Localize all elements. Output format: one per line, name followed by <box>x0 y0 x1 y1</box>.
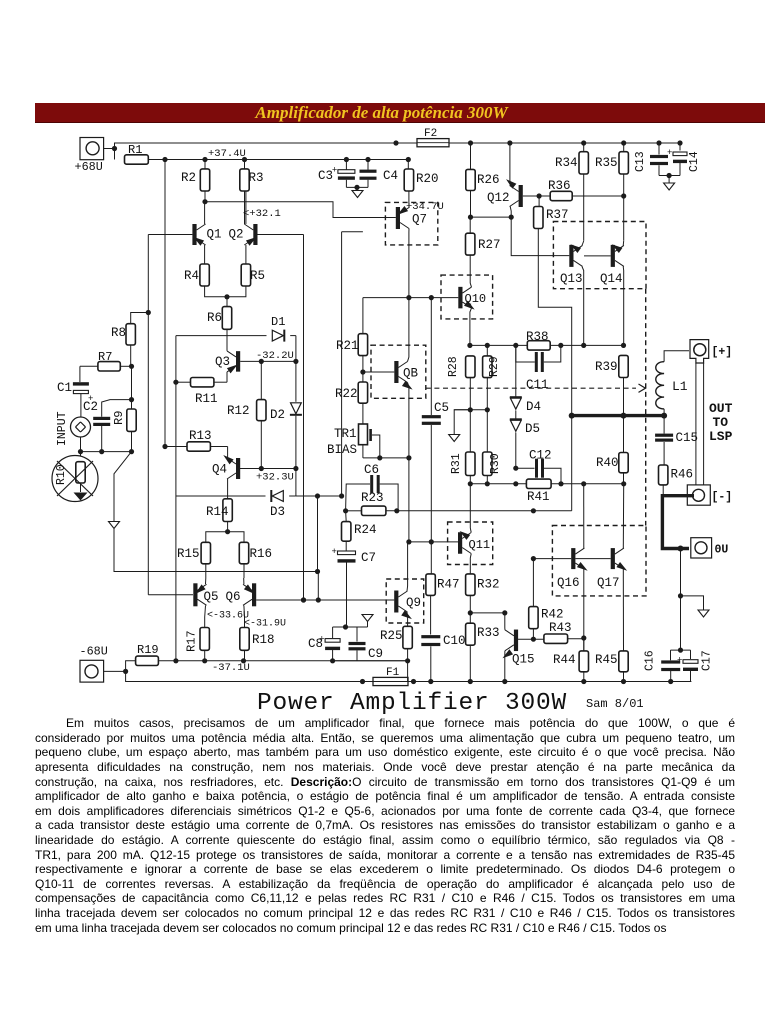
wire y=297.6 VAS line <box>363 295 458 300</box>
capacitor C14 <box>667 140 701 175</box>
svg-text:R26: R26 <box>477 173 500 187</box>
wire R2-bottom to Q7 base <box>202 199 395 217</box>
label +34.7V <box>406 201 444 213</box>
capacitor C2 <box>93 400 131 452</box>
dashed box Q9 <box>386 579 424 623</box>
node R26/R27 Q12 emitter line <box>468 215 514 220</box>
svg-text:R20: R20 <box>416 172 439 186</box>
resistor R16 <box>239 542 272 578</box>
resistor R4 <box>184 264 209 286</box>
VAS output line y=345.4 <box>467 343 626 348</box>
label +32.3V <box>256 472 294 484</box>
svg-text:C3: C3 <box>318 169 333 183</box>
svg-text:D3: D3 <box>270 505 285 519</box>
ground C13/C14 <box>659 173 680 190</box>
resistor R36 <box>548 179 626 201</box>
svg-text:R9: R9 <box>112 411 126 425</box>
capacitor C4 <box>360 157 399 188</box>
svg-text:R42: R42 <box>541 608 564 622</box>
svg-text:R15: R15 <box>177 547 200 561</box>
dashed box Q16 Q17 <box>552 526 646 596</box>
svg-text:C6: C6 <box>364 463 379 477</box>
resistor R15 <box>177 542 211 578</box>
capacitor C17 <box>677 650 714 681</box>
svg-text:R24: R24 <box>354 523 377 537</box>
svg-text:C15: C15 <box>676 431 699 445</box>
svg-text:F1: F1 <box>386 667 400 679</box>
svg-text:R12: R12 <box>227 404 250 418</box>
input connector <box>56 411 91 451</box>
svg-text:R22: R22 <box>335 387 358 401</box>
resistor R14 <box>206 499 232 532</box>
dashed box Q13 Q14 <box>553 222 646 289</box>
svg-text:R35: R35 <box>595 156 618 170</box>
svg-text:R47: R47 <box>437 578 460 592</box>
dashed vertical x=645.7 <box>645 289 647 526</box>
resistor R7 <box>80 350 134 371</box>
diodes D4 D5 column <box>510 345 541 470</box>
capacitor C1 <box>57 366 93 417</box>
terminal [-] <box>687 485 732 505</box>
svg-text:+68U: +68U <box>75 160 103 174</box>
node R21/R22 Q8 base <box>360 369 394 374</box>
transistor Q8 <box>394 298 418 458</box>
wire Q15 base to R43 <box>518 637 544 642</box>
wire Q12 emitter to Q13 base <box>511 217 569 256</box>
svg-text:R37: R37 <box>546 208 569 222</box>
terminal -68V <box>80 645 129 683</box>
transistor Q14 <box>584 241 624 345</box>
capacitor C10 <box>421 595 465 684</box>
node R1-right / bus x=165 <box>162 157 167 162</box>
svg-text:C9: C9 <box>368 647 383 661</box>
svg-text:D1: D1 <box>271 315 285 329</box>
resistor R46 <box>659 465 694 494</box>
svg-text:Q15: Q15 <box>512 653 535 667</box>
resistor R1 <box>125 143 149 164</box>
wire x=341.6 vertical <box>342 232 363 496</box>
svg-text:R40: R40 <box>596 456 619 470</box>
svg-text:C8: C8 <box>308 637 323 651</box>
svg-text:Q10: Q10 <box>465 292 487 306</box>
transistor Q6 <box>226 578 257 628</box>
svg-text:+: + <box>677 656 682 666</box>
svg-text:[+]: [+] <box>712 346 733 359</box>
transistor Q10 <box>458 255 486 345</box>
svg-text:Sam 8/01: Sam 8/01 <box>586 697 644 711</box>
svg-text:R19: R19 <box>137 643 159 657</box>
resistor R34 <box>555 140 588 240</box>
resistor R3 <box>240 157 264 224</box>
wire Q3 base line <box>259 359 296 364</box>
transistor Q15 <box>501 613 535 684</box>
svg-text:R17: R17 <box>185 630 199 652</box>
svg-text:Q2: Q2 <box>229 228 244 242</box>
dashed box Q7 <box>385 202 437 245</box>
resistor R17 <box>185 628 210 661</box>
resistor R5 <box>241 264 265 286</box>
svg-text:R10: R10 <box>55 464 68 485</box>
svg-text:R11: R11 <box>195 392 218 406</box>
resistor R45 <box>595 651 628 684</box>
svg-text:R5: R5 <box>250 269 265 283</box>
resistor R30 <box>483 410 502 484</box>
resistor R37 <box>534 196 569 229</box>
svg-text:-37.1U: -37.1U <box>212 662 250 674</box>
ground line R28/R29 bottoms y=409.8 <box>454 407 490 412</box>
svg-text:R28: R28 <box>447 356 460 377</box>
svg-text:R36: R36 <box>548 179 571 193</box>
bias box bottom edge with D3 <box>176 469 296 497</box>
resistor R42 <box>529 559 564 640</box>
capacitor C13 <box>634 140 668 175</box>
label C2 <box>83 400 98 414</box>
capacitor C12 <box>516 449 561 484</box>
wire Q8 emitter bus x=408.9 down <box>406 458 411 545</box>
transistor Q4 <box>212 447 261 499</box>
label -32.2V <box>256 350 294 362</box>
svg-text:C4: C4 <box>383 169 398 183</box>
diode D2 <box>270 361 302 468</box>
thick ground wire <box>662 496 694 552</box>
label OUT TO LSP <box>709 401 733 444</box>
resistor R22 <box>335 356 368 404</box>
transistor Q12 <box>487 140 523 217</box>
svg-text:Q12: Q12 <box>487 191 510 205</box>
capacitor C16 <box>644 650 681 684</box>
resistor R11 <box>173 378 227 407</box>
svg-text:C13: C13 <box>634 151 647 172</box>
resistor R43 <box>544 621 584 651</box>
svg-text:Q4: Q4 <box>212 463 227 477</box>
wire box-bottom extension to x=341.6 <box>296 493 344 498</box>
capacitor C5 <box>422 298 449 545</box>
resistor R41 <box>526 479 551 504</box>
transistor Q7 <box>396 203 427 298</box>
node R4/R5 junction <box>205 286 246 307</box>
ground stub near 0V <box>678 549 709 651</box>
svg-text:D2: D2 <box>270 408 285 422</box>
svg-text:-68U: -68U <box>80 645 108 659</box>
svg-text:F2: F2 <box>424 128 437 140</box>
svg-text:OUT: OUT <box>709 401 733 416</box>
node R32/R33 to Q15 collector <box>468 610 508 615</box>
resistor R8 <box>111 313 148 367</box>
svg-text:+32.3U: +32.3U <box>256 472 294 484</box>
fuse F2 <box>417 128 449 147</box>
svg-text:R31: R31 <box>450 453 463 474</box>
svg-text:R1: R1 <box>128 143 142 157</box>
transistor Q9 <box>394 542 421 626</box>
capacitor C9 <box>349 627 384 661</box>
capacitor C7 <box>332 541 377 627</box>
svg-text:<-33.6U: <-33.6U <box>207 611 249 622</box>
svg-text:<-31.9U: <-31.9U <box>244 619 286 630</box>
svg-text:R16: R16 <box>250 547 273 561</box>
svg-text:R18: R18 <box>252 633 275 647</box>
rail -37.1V y=660.8 <box>158 658 407 674</box>
transistor Q2 <box>229 191 304 264</box>
wire x=317.5 drop <box>317 496 319 572</box>
wire feedback bus x=303.5 (Q2/Q6 bases) <box>301 235 306 603</box>
node Q12 base R36 R37 <box>523 193 550 198</box>
svg-text:R8: R8 <box>111 326 126 340</box>
svg-text:R7: R7 <box>98 350 112 364</box>
svg-text:R41: R41 <box>527 490 550 504</box>
rail +37.4V, y=159.5 <box>148 159 409 161</box>
bias box left edge x=175.9 <box>175 336 177 661</box>
svg-text:Q3: Q3 <box>215 355 230 369</box>
dashed box Q8 <box>371 345 426 398</box>
wire bus x=165 down to R13 <box>162 160 167 450</box>
resistor R24 <box>342 511 377 541</box>
svg-text:C14: C14 <box>688 151 701 172</box>
resistor R20 <box>404 157 438 203</box>
svg-text:R43: R43 <box>549 621 572 635</box>
resistor R33 <box>466 613 500 684</box>
terminal [+] <box>690 340 732 363</box>
svg-text:C11: C11 <box>526 378 549 392</box>
capacitor C8 <box>308 627 340 663</box>
transistor Q5 <box>193 578 218 628</box>
svg-text:R29: R29 <box>488 356 501 377</box>
wire input bus x=148.3 (Q1/Q5 bases) <box>146 235 193 595</box>
lamp R10 <box>52 452 98 502</box>
capacitor C6 <box>346 463 399 511</box>
resistor R18 <box>240 628 275 661</box>
svg-text:C2: C2 <box>83 400 98 414</box>
label -33.6V <box>207 611 249 622</box>
transistor Q3 <box>215 348 261 382</box>
svg-text:R27: R27 <box>478 238 501 252</box>
resistor R31 <box>450 410 475 484</box>
resistor R40 <box>596 416 628 484</box>
svg-text:R38: R38 <box>526 330 549 344</box>
node input bottom <box>78 449 134 454</box>
power rail +68V top, y=143 <box>114 140 680 145</box>
resistor R12 <box>227 361 266 468</box>
inductor L1 <box>656 351 689 416</box>
node R14 bottom <box>206 529 244 542</box>
svg-text:INPUT: INPUT <box>56 411 69 446</box>
svg-text:C5: C5 <box>434 401 449 415</box>
svg-text:+37.4U: +37.4U <box>208 148 246 160</box>
resistor R9 <box>112 366 136 451</box>
svg-text:R30: R30 <box>489 453 502 474</box>
label +37.4V <box>208 148 246 160</box>
capacitor C3 <box>318 157 355 188</box>
svg-text:R2: R2 <box>181 171 196 185</box>
svg-text:R21: R21 <box>336 339 359 353</box>
resistor R19 <box>126 643 159 671</box>
wire R37 bottom to thick output line <box>538 229 571 511</box>
dashed box Q11 <box>448 522 493 565</box>
resistor R29 <box>483 345 501 409</box>
diode D1 <box>271 315 285 342</box>
transistor Q13 <box>560 241 584 345</box>
speaker cable double line <box>696 363 704 485</box>
svg-text:R45: R45 <box>595 653 618 667</box>
svg-text:R4: R4 <box>184 269 199 283</box>
dashed box Q10 <box>441 275 493 319</box>
trimmer TR1 <box>327 403 412 460</box>
resistor R44 <box>553 635 589 684</box>
bottom rail y=681.5 <box>126 671 692 681</box>
wire D1 column to Q3 base line <box>293 336 298 364</box>
resistor R23 <box>343 491 386 516</box>
svg-text:Q16: Q16 <box>557 576 580 590</box>
wire y=541.9 to Q11 base <box>409 541 458 543</box>
svg-text:Q17: Q17 <box>597 576 620 590</box>
svg-text:R3: R3 <box>249 171 264 185</box>
svg-text:Q13: Q13 <box>560 272 583 286</box>
svg-text:+: + <box>667 148 672 158</box>
capacitor C15 <box>655 416 698 465</box>
svg-text:C7: C7 <box>361 551 376 565</box>
svg-text:Power Amplifier 300W: Power Amplifier 300W <box>257 690 567 717</box>
svg-text:TO: TO <box>713 415 729 430</box>
svg-text:Q1: Q1 <box>207 228 222 242</box>
svg-text:R46: R46 <box>671 468 694 482</box>
label <+32.1 <box>243 208 281 220</box>
resistor R47 <box>426 542 460 596</box>
svg-text:L1: L1 <box>672 379 688 394</box>
thick output line y=415.6 <box>569 413 667 419</box>
resistor R35 <box>595 140 628 240</box>
svg-text:D4: D4 <box>526 400 541 414</box>
wire Q6 base to Q9 base <box>256 597 394 602</box>
wire Q4 base line <box>259 466 299 471</box>
dashed horizontal with arrow <box>426 384 646 392</box>
svg-text:<+32.1: <+32.1 <box>243 208 281 220</box>
svg-text:BIAS: BIAS <box>327 443 357 457</box>
svg-text:TR1: TR1 <box>334 427 357 441</box>
capacitor C11 <box>516 345 561 392</box>
resistor R32 <box>466 574 500 613</box>
wire feedback line A y=571.5 <box>114 529 320 601</box>
resistor R28 <box>447 356 475 410</box>
diode D3 <box>270 490 285 519</box>
svg-text:QB: QB <box>403 367 419 381</box>
resistor R25 <box>380 626 412 661</box>
svg-text:C10: C10 <box>443 634 466 648</box>
svg-text:LSP: LSP <box>709 429 733 444</box>
svg-text:R34: R34 <box>555 156 578 170</box>
svg-text:C16: C16 <box>644 650 657 671</box>
ground C3/C4 <box>346 185 368 198</box>
svg-text:[-]: [-] <box>712 491 733 504</box>
line y=483.8 <box>468 481 627 486</box>
resistor R13 <box>165 429 228 451</box>
resistor R21 <box>336 298 368 356</box>
resistor R2 <box>181 157 210 202</box>
svg-text:R23: R23 <box>361 491 384 505</box>
resistor R27 <box>466 217 501 255</box>
fuse F1 <box>360 667 416 686</box>
label -31.9V <box>244 619 286 630</box>
svg-text:R13: R13 <box>189 429 212 443</box>
terminal 0V <box>691 538 729 558</box>
svg-text:Q6: Q6 <box>226 590 241 604</box>
svg-text:R6: R6 <box>207 311 222 325</box>
svg-text:Q11: Q11 <box>469 538 491 552</box>
resistor R38 <box>526 330 550 350</box>
svg-text:C1: C1 <box>57 381 72 395</box>
resistor R39 <box>595 355 628 415</box>
svg-text:R25: R25 <box>380 629 403 643</box>
transistor Q1 <box>148 202 221 264</box>
capacitors C16 C17 node <box>671 648 691 661</box>
transistor Q11 <box>458 484 490 574</box>
svg-text:Q5: Q5 <box>204 590 219 604</box>
resistor R26 <box>466 140 500 217</box>
svg-text:Q14: Q14 <box>600 272 623 286</box>
bias box top edge with D1 <box>176 335 296 337</box>
svg-text:C12: C12 <box>529 449 552 463</box>
wire input ground branch <box>109 452 132 529</box>
svg-text:R32: R32 <box>477 578 500 592</box>
svg-text:R39: R39 <box>595 360 618 374</box>
svg-text:+: + <box>332 547 337 557</box>
wire rail extension to R25 <box>333 658 411 681</box>
transistor Q16 <box>531 484 590 651</box>
svg-text:0U: 0U <box>715 544 729 557</box>
terminal +68V <box>75 138 118 175</box>
ground near C5 <box>449 410 471 442</box>
svg-text:Q7: Q7 <box>412 213 427 227</box>
ground line C7/C8/C9 y=627 <box>333 615 373 630</box>
title bar <box>35 103 765 123</box>
svg-text:Q9: Q9 <box>406 596 421 610</box>
svg-text:R14: R14 <box>206 505 229 519</box>
transistor Q17 <box>575 484 629 651</box>
svg-text:R44: R44 <box>553 653 576 667</box>
resistor R6 <box>207 307 232 348</box>
svg-text:C17: C17 <box>701 650 714 671</box>
line y=510.8 driver <box>346 508 572 513</box>
svg-text:R33: R33 <box>477 626 500 640</box>
title Power Amplifier 300W <box>257 690 644 717</box>
svg-text:D5: D5 <box>525 422 540 436</box>
